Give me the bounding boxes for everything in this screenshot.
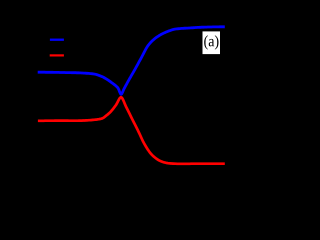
curve: blue upper adiabatic branch <box>38 27 225 95</box>
label text (a) <box>204 35 218 49</box>
legend line sample blue <box>50 39 64 41</box>
label box for panel letter <box>203 31 221 54</box>
legend line sample red <box>50 54 64 56</box>
curve: red lower adiabatic branch <box>38 97 225 164</box>
